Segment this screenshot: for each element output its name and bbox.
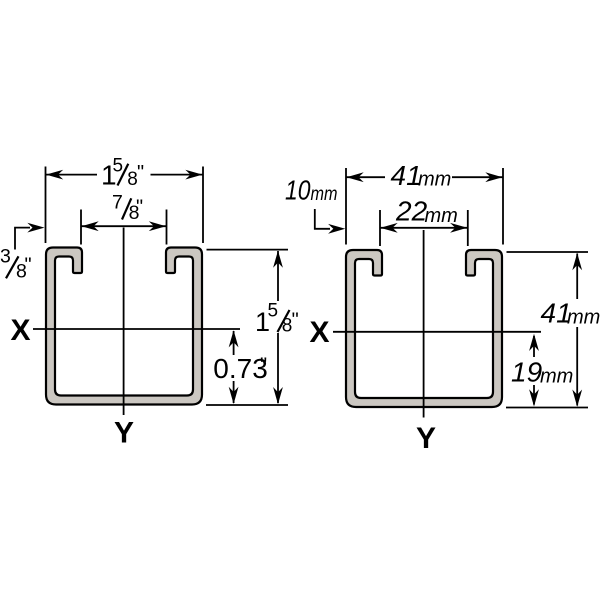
- svg-text:mm: mm: [418, 168, 451, 190]
- svg-text:Y: Y: [416, 422, 436, 455]
- svg-text:X: X: [310, 316, 330, 349]
- svg-text:41: 41: [391, 160, 422, 191]
- svg-text:22: 22: [395, 196, 428, 227]
- svg-text:mm: mm: [540, 366, 573, 388]
- svg-text:mm: mm: [567, 307, 600, 329]
- svg-text:10: 10: [285, 175, 311, 206]
- svg-text:": ": [292, 310, 299, 332]
- svg-text:mm: mm: [425, 205, 458, 227]
- svg-text:7: 7: [112, 192, 123, 214]
- svg-text:5: 5: [113, 156, 124, 177]
- svg-text:3: 3: [0, 246, 11, 268]
- svg-text:mm: mm: [311, 183, 338, 205]
- svg-text:": ": [260, 355, 267, 377]
- svg-text:19: 19: [511, 357, 542, 388]
- svg-text:Y: Y: [114, 417, 134, 450]
- svg-text:X: X: [11, 314, 31, 347]
- svg-text:": ": [136, 197, 143, 219]
- svg-text:": ": [25, 255, 32, 277]
- svg-text:": ": [137, 162, 144, 184]
- svg-text:5: 5: [268, 300, 279, 321]
